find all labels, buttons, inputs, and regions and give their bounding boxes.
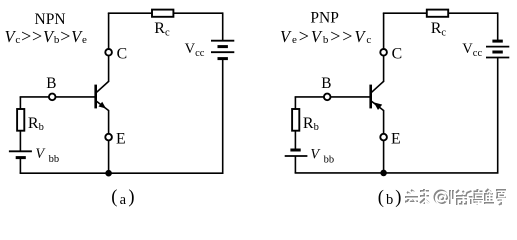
wire right rail bottom xyxy=(497,58,499,173)
watermark 头条 @临沂章鱼哥 (embossed gray, hand-drawn strokes) xyxy=(405,189,507,206)
wire right rail top (to Vcc) xyxy=(497,12,499,41)
resistor Rb xyxy=(17,109,24,131)
char 临 xyxy=(450,190,468,204)
char 哥 xyxy=(496,190,506,204)
junction dot (a) xyxy=(105,170,112,177)
wire collector vertical (C) xyxy=(383,13,385,82)
battery Vcc (long,thick,long,thick) xyxy=(211,41,234,59)
battery Vcc (b) (thick,long,thick,long) xyxy=(486,41,509,57)
emitter arrow (NPN, pointing out) xyxy=(99,102,107,109)
battery Vbb (b) (thick top, long bottom) xyxy=(285,150,308,156)
wire below battery Vbb xyxy=(294,156,296,173)
svg-text:PNP: PNP xyxy=(310,9,338,26)
svg-text:B: B xyxy=(46,75,56,92)
resistor Rb (b) xyxy=(292,109,299,131)
char @ xyxy=(435,191,448,204)
emitter diagonal xyxy=(371,101,384,111)
collector diagonal xyxy=(371,81,384,93)
resistor Rc (b) xyxy=(427,10,448,17)
char 鱼 xyxy=(484,189,494,203)
node B terminal circle xyxy=(49,94,56,101)
battery Vbb (long top, thick bottom) xyxy=(9,151,32,157)
svg-text:C: C xyxy=(117,45,128,62)
emitter arrow (PNP, pointing in toward base) xyxy=(374,102,382,110)
svg-text:E: E xyxy=(391,131,401,148)
wire top rail right segment xyxy=(174,12,223,14)
svg-text:E: E xyxy=(116,131,126,148)
char 沂 xyxy=(462,191,473,204)
resistor Rc xyxy=(152,10,173,17)
char 章 xyxy=(473,189,483,205)
node B terminal circle (b) xyxy=(324,94,331,101)
char 条 xyxy=(420,189,429,204)
wire top rail left segment xyxy=(383,12,427,14)
wire right rail bottom (Vcc to ground rail) xyxy=(222,59,224,174)
node C terminal circle (b) xyxy=(380,49,387,56)
transistor Q1 (NPN) xyxy=(96,81,109,111)
wire bottom rail xyxy=(295,172,499,174)
wire top rail left segment xyxy=(108,12,152,14)
wire left rail (B node down through Rb) xyxy=(294,97,296,150)
collector diagonal xyxy=(96,81,109,93)
junction dot (b) xyxy=(380,170,387,177)
base bar xyxy=(369,85,372,109)
wire base horizontal xyxy=(20,96,95,98)
svg-text:bb: bb xyxy=(324,154,335,165)
wire left rail (B node down through Rb) xyxy=(19,97,21,151)
svg-text:C: C xyxy=(392,45,403,62)
wire base horizontal xyxy=(295,96,370,98)
wire collector vertical (C) xyxy=(108,13,110,82)
wire bottom rail xyxy=(20,172,224,174)
node E terminal circle (b) xyxy=(380,134,387,141)
emitter diagonal xyxy=(96,101,109,111)
char 头 xyxy=(405,190,418,203)
wire emitter vertical (E) xyxy=(383,110,385,173)
base bar xyxy=(94,85,97,109)
node C terminal circle xyxy=(105,49,112,56)
wire emitter vertical (E) xyxy=(108,110,110,173)
node E terminal circle xyxy=(105,134,112,141)
svg-text:bb: bb xyxy=(49,154,60,165)
wire right rail top (to Vcc) xyxy=(222,12,224,40)
wire below battery Vbb xyxy=(19,158,21,174)
wire top rail right segment xyxy=(449,12,498,14)
svg-text:B: B xyxy=(321,75,331,92)
transistor Q2 (PNP) xyxy=(371,81,384,111)
